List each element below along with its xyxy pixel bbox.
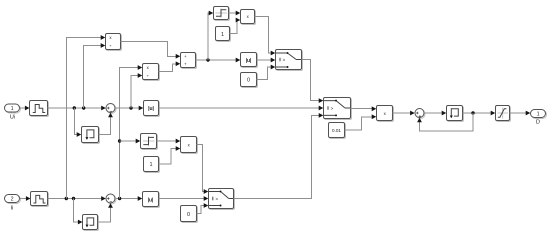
add block (dI/dU + Ii/Ui)	[181, 53, 197, 69]
wire dI up to divide B input1	[120, 65, 143, 198]
junction dot memory3 output	[471, 111, 474, 114]
junction dot dI branch	[118, 197, 121, 200]
wire divide A to add input1	[121, 42, 181, 59]
wire Ii up to divide A input1	[66, 35, 105, 198]
svg-text:0: 0	[247, 78, 250, 84]
stair-signal block (Ui rate transition)	[30, 101, 49, 117]
product block M (sign x 1)	[181, 137, 198, 154]
constant 1 (top)	[216, 27, 231, 42]
wire junction up to sign1	[208, 11, 213, 60]
wire product T to switch1 input1	[255, 17, 276, 56]
abs block |dI|	[143, 192, 160, 208]
wire memory2 to sum2 minus input	[98, 203, 113, 222]
sum U1 (dU = U - Uprev)	[106, 104, 116, 114]
sign block 2	[141, 134, 158, 150]
svg-text:2: 2	[11, 196, 14, 202]
wire switch1 to switch2 input1	[302, 60, 324, 104]
wire in1 to stair1	[20, 106, 30, 111]
wire constant1 middle to product M input2	[159, 146, 181, 164]
saturation block	[496, 106, 511, 122]
svg-text:Ii: Ii	[11, 205, 14, 211]
wire sign1 to product T input1	[229, 11, 241, 16]
output port 1 (D)	[531, 110, 547, 126]
wire sum2 to abs2	[115, 196, 142, 201]
wire divide B to add input2	[159, 61, 181, 71]
wire constant0 bottom to switch3 input3	[197, 203, 209, 213]
wire memory3 to saturation	[463, 111, 496, 116]
wire Ui up to divide A input2	[84, 43, 106, 108]
abs block 3	[241, 53, 258, 68]
junction dot Ui to divide A	[82, 106, 85, 109]
wire product F to sum3	[393, 111, 415, 116]
constant 1 (middle)	[144, 157, 160, 173]
wire feedback memory3 to sum3	[417, 113, 473, 131]
wire sign2 to product M input1	[157, 139, 181, 144]
svg-text:0: 0	[187, 212, 190, 218]
svg-text:|u|: |u|	[246, 58, 252, 64]
wire in2 to stair2	[20, 196, 31, 201]
wire abs2 to switch3 input2	[159, 196, 209, 201]
constant 0 (bottom)	[181, 206, 198, 223]
junction dot Ii to divide A	[65, 197, 68, 200]
stair-signal block (Ii rate transition)	[31, 192, 49, 207]
switch block 2 (main)	[324, 98, 352, 120]
switch block 1	[276, 50, 303, 71]
wire dU up to divide B input2	[131, 73, 142, 108]
wire memory1 to sum1 minus input	[99, 113, 113, 135]
svg-text:|u|: |u|	[148, 106, 154, 112]
junction dot dI to sign2	[118, 139, 121, 142]
wire sum3 to memory3	[424, 111, 446, 116]
junction dot Ui to memory1	[73, 106, 76, 109]
svg-text:1: 1	[11, 106, 14, 112]
wire sum1 to abs1	[115, 106, 143, 111]
wire abs3 to switch1 input2	[257, 58, 276, 63]
wire dI junction to sign2	[120, 139, 141, 144]
wire constant 0.01 to product F input2	[345, 114, 377, 130]
memory block 3 (Dprev)	[447, 106, 464, 122]
svg-text:1: 1	[221, 32, 224, 38]
constant 0 (top)	[241, 73, 258, 88]
memory block U (Uprev)	[82, 127, 100, 144]
svg-text:>: >	[331, 106, 334, 111]
wire stair1 to sum1	[48, 106, 106, 111]
wire constant0 to switch1 input3	[257, 65, 276, 80]
wire add to abs3	[196, 58, 241, 63]
wire saturation to output port	[510, 111, 531, 116]
memory block I (Iprev)	[83, 215, 99, 231]
wire product M to switch3 input1	[197, 145, 209, 194]
svg-text:|u|: |u|	[148, 197, 154, 203]
abs block |dU|	[144, 101, 160, 117]
svg-text:0.01: 0.01	[332, 128, 341, 133]
wire constant1 to product T input2	[230, 18, 241, 34]
wire switch3 to switch2 input3	[234, 113, 324, 199]
input port 2 (Ii)	[5, 195, 21, 212]
svg-text:>: >	[215, 197, 218, 202]
wire Ui junction down to memory1	[74, 108, 81, 137]
switch block 3	[209, 189, 235, 210]
svg-text:>: >	[283, 58, 286, 63]
divide block B (dI/dU)	[143, 64, 160, 81]
wire stair2 to sum2	[48, 196, 106, 201]
wire abs1 to switch2 input2	[159, 106, 324, 111]
svg-text:1: 1	[537, 111, 540, 117]
svg-text:1: 1	[149, 162, 152, 168]
product block T (sign x 1)	[241, 10, 256, 25]
svg-text:D: D	[536, 119, 540, 125]
sum I1 (dI = I - Iprev)	[106, 194, 116, 204]
junction dot Ii to memory2	[72, 197, 75, 200]
sign block 1	[214, 7, 230, 21]
junction dot dU branch	[129, 106, 132, 109]
wire switch2 to product F input1	[351, 106, 377, 111]
product block F (step x 0.01)	[377, 106, 394, 122]
junction dot add output to sign1	[206, 58, 209, 61]
divide block A (Ii/Ui)	[106, 34, 122, 51]
constant 0.01	[329, 123, 346, 139]
svg-text:Ui: Ui	[10, 115, 15, 121]
wire Ii junction down to memory2	[74, 199, 83, 225]
input port 1 (Ui)	[5, 104, 21, 121]
sum 3 (accumulator)	[415, 109, 425, 119]
